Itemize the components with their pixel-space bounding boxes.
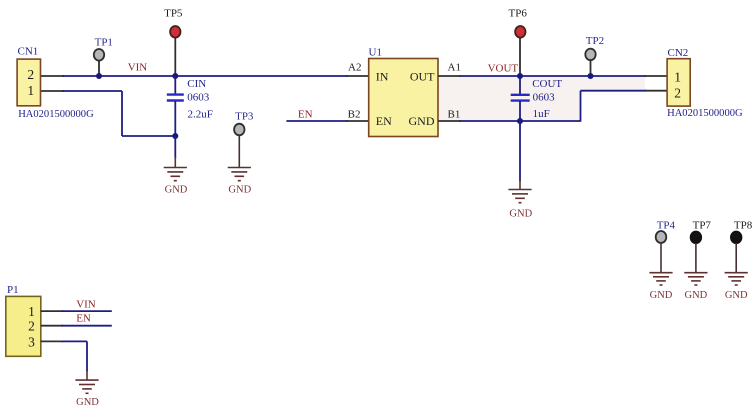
- wire from P1 pin3 horizontal: [62, 340, 88, 342]
- CN2 pin 2 stub: [645, 90, 668, 92]
- svg-text:TP3: TP3: [235, 110, 254, 122]
- svg-text:2.2uF: 2.2uF: [188, 109, 213, 121]
- P1 pin 1 stub: [41, 310, 63, 312]
- svg-text:1: 1: [27, 83, 34, 98]
- svg-text:GND: GND: [76, 397, 99, 408]
- net highlight region between VOUT and GND wires: [438, 76, 645, 121]
- junction at CIN bottom: [172, 133, 178, 139]
- junction at TP5/VIN/CIN: [172, 73, 178, 79]
- svg-text:COUT: COUT: [532, 78, 562, 90]
- test point TP5 circle: [170, 26, 180, 38]
- svg-text:GND: GND: [509, 208, 532, 219]
- svg-text:CN1: CN1: [18, 46, 39, 58]
- svg-text:CIN: CIN: [187, 78, 206, 90]
- CIN top lead: [174, 76, 176, 94]
- COUT bottom lead: [519, 101, 521, 121]
- svg-text:EN: EN: [76, 313, 91, 325]
- svg-text:OUT: OUT: [410, 69, 435, 83]
- U1 pin A1 stub: [438, 75, 461, 77]
- svg-text:0603: 0603: [533, 91, 556, 103]
- ground symbol below TP8: [725, 273, 748, 285]
- svg-text:1: 1: [674, 70, 681, 85]
- svg-text:HA0201500000G: HA0201500000G: [18, 108, 94, 120]
- svg-text:IN: IN: [376, 69, 389, 83]
- CN1 pin 1 stub: [41, 90, 65, 92]
- connector CN2 body: [667, 59, 690, 106]
- ground symbol below TP4: [649, 273, 672, 285]
- test point TP2 circle: [585, 49, 595, 61]
- test point TP6 circle: [515, 26, 525, 38]
- ground symbol below CIN: [164, 157, 187, 181]
- U1 pin B1 stub: [438, 120, 461, 122]
- svg-text:TP6: TP6: [509, 8, 528, 20]
- svg-text:1uF: 1uF: [533, 108, 550, 120]
- svg-text:B2: B2: [348, 108, 361, 120]
- TP8 wire to ground: [735, 243, 737, 272]
- wire from CN1 pin1 horizontal: [62, 90, 122, 92]
- wire from COUT junction down to ground: [519, 121, 521, 181]
- wire from P1 pin3 down to ground: [86, 341, 88, 371]
- svg-text:TP4: TP4: [657, 219, 676, 231]
- svg-text:VOUT: VOUT: [488, 63, 519, 75]
- wire EN net to U1 B2: [286, 120, 348, 122]
- wire from CIN junction down to ground: [174, 136, 176, 158]
- svg-text:TP5: TP5: [164, 8, 183, 20]
- TP4 wire to ground: [660, 243, 662, 272]
- svg-text:TP2: TP2: [586, 35, 604, 47]
- svg-text:GND: GND: [165, 185, 188, 196]
- svg-text:GND: GND: [725, 290, 748, 301]
- TP5 stub wire: [174, 37, 176, 76]
- ground symbol below P1: [75, 371, 98, 394]
- TP2 stub wire: [590, 60, 592, 77]
- junction at COUT bottom/GND net: [517, 118, 523, 124]
- junction at TP6/VOUT/COUT: [517, 73, 523, 79]
- regulator U1 body: [369, 59, 438, 137]
- svg-text:GND: GND: [650, 290, 673, 301]
- svg-text:TP7: TP7: [693, 219, 712, 231]
- junction at TP1/VIN: [96, 73, 102, 79]
- svg-text:TP1: TP1: [95, 36, 113, 48]
- ground symbol below COUT: [508, 180, 531, 203]
- wire GND net from U1 B1: [459, 120, 581, 122]
- P1 pin 2 stub: [41, 325, 63, 327]
- svg-text:P1: P1: [7, 284, 19, 296]
- wire VOUT net from U1 OUT to CN2 pin1: [459, 75, 646, 77]
- CIN bottom lead: [174, 101, 176, 136]
- ground symbol below TP7: [684, 273, 707, 285]
- capacitor CIN plates: [167, 95, 184, 101]
- svg-text:A2: A2: [348, 61, 361, 73]
- svg-text:VIN: VIN: [128, 62, 148, 74]
- svg-text:GND: GND: [685, 290, 708, 301]
- ground symbol below TP3: [228, 168, 251, 181]
- TP3 wire to ground: [238, 135, 240, 167]
- svg-text:A1: A1: [448, 61, 461, 73]
- wire VIN from P1 pin1: [62, 310, 112, 312]
- svg-text:2: 2: [28, 319, 35, 334]
- U1 pin A2 stub: [346, 75, 369, 77]
- wire GND net vertical riser: [580, 91, 582, 122]
- svg-text:U1: U1: [369, 46, 382, 58]
- svg-text:GND: GND: [228, 185, 251, 196]
- svg-text:CN2: CN2: [668, 47, 689, 59]
- svg-text:B1: B1: [448, 108, 461, 120]
- TP1 stub wire: [98, 60, 100, 77]
- capacitor COUT plates: [511, 95, 530, 101]
- svg-text:1: 1: [28, 304, 35, 319]
- CN1 pin 2 stub: [41, 75, 65, 77]
- header P1 body: [6, 296, 41, 356]
- TP7 wire to ground: [695, 243, 697, 272]
- svg-text:2: 2: [27, 67, 34, 82]
- svg-text:3: 3: [28, 335, 35, 350]
- svg-text:2: 2: [674, 85, 681, 100]
- P1 pin 3 stub: [41, 340, 63, 342]
- svg-text:GND: GND: [409, 114, 435, 128]
- wire EN from P1 pin2: [62, 325, 112, 327]
- svg-text:EN: EN: [298, 108, 313, 120]
- test point TP7 circle: [691, 231, 702, 243]
- svg-text:VIN: VIN: [76, 298, 96, 310]
- svg-text:TP8: TP8: [734, 219, 753, 231]
- CN2 pin 1 stub: [645, 75, 668, 77]
- junction at TP2/VOUT: [588, 73, 594, 79]
- test point TP4 circle: [656, 231, 667, 243]
- svg-text:0603: 0603: [187, 91, 210, 103]
- wire horizontal to CIN bottom: [122, 135, 175, 137]
- wire VIN net from CN1 pin2 to U1 IN: [62, 75, 348, 77]
- TP6 stub wire: [519, 37, 521, 76]
- connector CN1 body: [17, 59, 40, 106]
- COUT top lead: [519, 76, 521, 94]
- svg-text:HA0201500000G: HA0201500000G: [667, 107, 743, 119]
- wire GND net horizontal to CN2 pin2: [581, 90, 647, 92]
- test point TP8 circle: [731, 231, 742, 243]
- test point TP1 circle: [94, 49, 104, 61]
- test point TP3 circle: [234, 124, 244, 136]
- wire vertical from CN1 pin1 down: [121, 91, 123, 136]
- svg-text:EN: EN: [376, 114, 392, 128]
- U1 pin B2 stub: [346, 120, 369, 122]
